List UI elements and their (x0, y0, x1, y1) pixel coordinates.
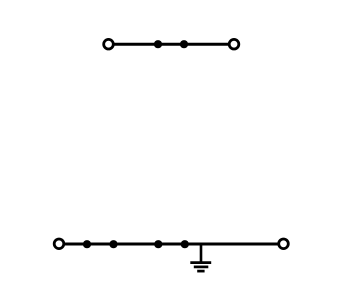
junction dot (top rail, right) (180, 40, 188, 48)
wire (bottom rail) (62, 243, 281, 246)
junction dot (bottom rail, 2) (109, 240, 117, 248)
junction dot (bottom rail, 3) (154, 240, 162, 248)
left terminal (top rail) (104, 39, 114, 49)
junction dot (bottom rail, 4) (181, 240, 189, 248)
junction dot (top rail, left) (154, 40, 162, 48)
wire (top rail) (112, 43, 230, 46)
right terminal (bottom rail) (279, 239, 289, 249)
left terminal (bottom rail) (54, 239, 64, 249)
ground (190, 244, 211, 271)
right terminal (top rail) (229, 39, 239, 49)
junction dot (bottom rail, 1) (83, 240, 91, 248)
